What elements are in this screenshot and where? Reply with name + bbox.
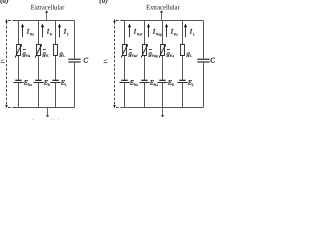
svg-text:Na: Na xyxy=(30,32,35,36)
svg-text:Na: Na xyxy=(28,83,33,87)
svg-text:Intracellular: Intracellular xyxy=(32,118,66,120)
svg-text:Na: Na xyxy=(26,54,31,58)
svg-text:Ks: Ks xyxy=(170,54,175,58)
svg-text:Nap: Nap xyxy=(156,32,162,36)
svg-text:Extracellular: Extracellular xyxy=(31,3,65,11)
svg-text:L: L xyxy=(192,83,195,87)
svg-text:Naf: Naf xyxy=(137,32,143,36)
svg-text:C: C xyxy=(83,57,88,65)
svg-text:Nap: Nap xyxy=(152,54,158,58)
svg-text:Na: Na xyxy=(154,83,159,87)
svg-text:(b): (b) xyxy=(99,0,108,5)
svg-text:Extracellular: Extracellular xyxy=(146,3,180,11)
svg-text:K: K xyxy=(172,83,175,87)
svg-text:(a): (a) xyxy=(0,0,9,5)
svg-text:L: L xyxy=(65,83,68,87)
svg-text:Na: Na xyxy=(134,83,139,87)
svg-text:Naf: Naf xyxy=(132,54,138,58)
svg-text:L: L xyxy=(190,54,193,58)
svg-text:L: L xyxy=(67,32,70,36)
svg-text:L: L xyxy=(63,54,66,58)
svg-text:L: L xyxy=(193,32,196,36)
svg-text:K: K xyxy=(46,54,49,58)
svg-text:Ks: Ks xyxy=(174,32,179,36)
svg-text:C: C xyxy=(210,57,215,65)
svg-text:K: K xyxy=(48,83,51,87)
svg-text:K: K xyxy=(50,32,53,36)
